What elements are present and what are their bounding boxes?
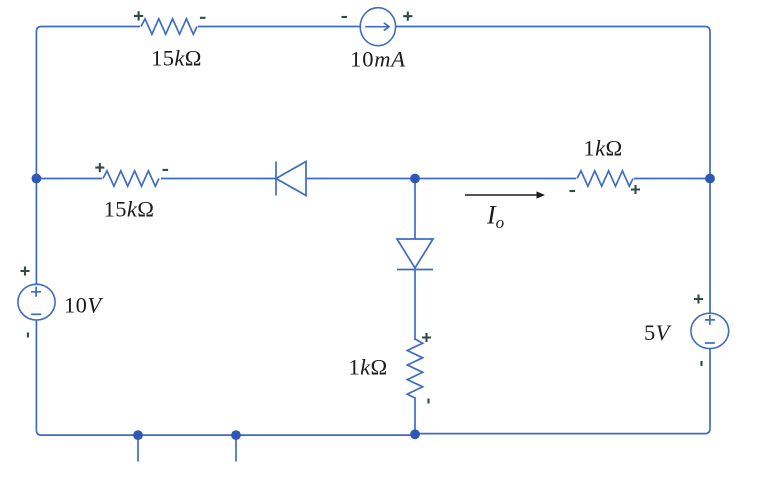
svg-text:1kΩ: 1kΩ	[348, 355, 387, 380]
wire bottom rail left segment	[36, 430, 416, 435]
U1 polarity plus	[403, 12, 412, 21]
R3 polarity plus	[631, 185, 640, 194]
R1 polarity minus	[200, 17, 206, 19]
node (right rail / middle rail)	[705, 174, 715, 184]
voltage source V1 10V	[18, 284, 55, 320]
node A (middle junction)	[410, 174, 420, 184]
current arrow Io	[465, 191, 545, 198]
svg-text:5V: 5V	[644, 320, 672, 345]
V2 polarity plus	[694, 295, 703, 304]
svg-text:1kΩ: 1kΩ	[583, 136, 622, 161]
R3 polarity minus	[570, 190, 576, 192]
U1 polarity minus	[342, 16, 348, 18]
svg-text:10mA: 10mA	[350, 47, 406, 72]
resistor R2 15kΩ (middle)	[102, 170, 161, 189]
wire bottom rail right segment	[414, 429, 710, 434]
node (left rail / middle rail)	[32, 174, 42, 184]
diode D1 (pointing left)	[276, 162, 306, 196]
wire bottom stub 1	[137, 435, 139, 461]
wire middle rail	[36, 178, 710, 180]
wire middle vertical branch	[414, 179, 416, 435]
node (bottom junction 1)	[133, 430, 143, 440]
svg-text:15kΩ: 15kΩ	[151, 46, 202, 71]
R1 polarity plus	[134, 11, 143, 20]
R2 polarity minus	[163, 169, 169, 171]
voltage source V2 5V	[691, 313, 729, 348]
svg-text:Io: Io	[486, 201, 504, 233]
R2 polarity plus	[95, 163, 104, 172]
R4 polarity minus (rotated)	[427, 399, 429, 404]
wire bottom stub 2	[235, 435, 237, 461]
resistor R3 1kΩ (right)	[576, 170, 634, 189]
svg-text:15kΩ: 15kΩ	[104, 197, 155, 222]
V2 polarity minus (rotated)	[700, 361, 702, 366]
node (bottom junction 2)	[231, 430, 241, 440]
resistor R4 1kΩ (vertical)	[405, 339, 425, 398]
V1 polarity plus	[21, 267, 30, 276]
V1 polarity minus (rotated)	[27, 333, 29, 338]
current source U1 10mA	[360, 8, 395, 46]
node (bottom junction 3, branch)	[410, 429, 420, 439]
resistor R1 15kΩ (top)	[140, 17, 198, 36]
R4 polarity plus	[422, 333, 431, 342]
diode D2 (pointing down)	[397, 239, 433, 270]
wire outer loop: left rail, top rail, right rail	[36, 27, 710, 431]
svg-text:10V: 10V	[64, 293, 103, 318]
